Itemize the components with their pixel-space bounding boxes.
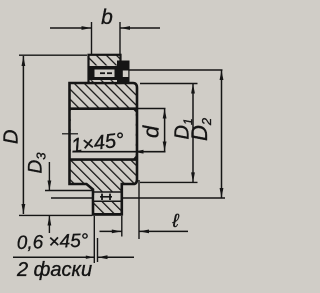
dimension d xyxy=(139,109,167,152)
chamfer underline leader and d bottom extension xyxy=(73,151,166,153)
dimension l xyxy=(100,180,189,239)
chamfer second extension line xyxy=(97,238,99,262)
svg-text:2 фаски: 2 фаски xyxy=(16,259,92,281)
bore chamfer diagonals at right face xyxy=(134,109,138,113)
bottom boss keyway slot xyxy=(93,192,122,202)
dimension D2 xyxy=(51,70,225,198)
bore top line thick and d top extension xyxy=(70,107,138,110)
chamfer note 0,6x45 with underline leader xyxy=(13,230,94,258)
dimension b xyxy=(50,6,160,55)
bore bottom thick edge xyxy=(70,158,138,161)
top right collar blob xyxy=(117,61,130,85)
dimension D1 xyxy=(140,84,198,183)
part body outline with hatched section xyxy=(70,83,138,214)
dimension D xyxy=(1,55,93,215)
chamfer note 1x45 xyxy=(62,129,125,157)
svg-text:D: D xyxy=(1,130,23,144)
dimension D3 xyxy=(26,152,93,233)
svg-text:ℓ: ℓ xyxy=(171,211,179,232)
svg-text:0,6 ×45°: 0,6 ×45° xyxy=(16,230,89,253)
svg-text:b: b xyxy=(101,6,113,29)
bottom boss thick bottom edge xyxy=(92,213,123,216)
boss left extension line down xyxy=(93,216,95,263)
chamfer arrow pointing left xyxy=(98,255,135,259)
svg-text:d: d xyxy=(139,125,164,138)
chamfer leader arrowhead on underline xyxy=(134,150,144,154)
top rim box xyxy=(89,55,121,83)
